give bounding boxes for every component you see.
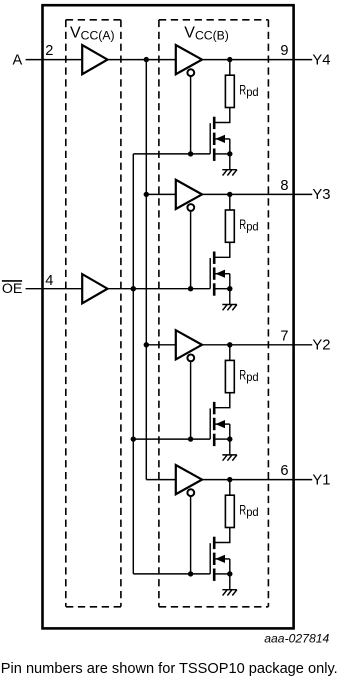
wire Y3 bubble to gate net bbox=[190, 211, 192, 289]
wire Y3 output bbox=[202, 193, 312, 195]
outer box bbox=[43, 5, 294, 628]
wire OE rail to Q7 gate bbox=[133, 573, 210, 575]
wire U1 out to Y4 buffer bbox=[108, 59, 176, 61]
svg-text:2: 2 bbox=[45, 43, 53, 59]
svg-text:aaa-027814: aaa-027814 bbox=[264, 632, 329, 646]
svg-text:7: 7 bbox=[280, 328, 288, 344]
wire Q1 source to ground bbox=[229, 154, 231, 170]
wire Rpd to Q7 drain bbox=[214, 528, 230, 543]
transistor Q5 (Y2 pull-down nmos) bbox=[210, 402, 230, 446]
wire OE input bbox=[26, 288, 83, 290]
wire OE out / Q3 gate net bbox=[108, 288, 211, 290]
svg-text:8: 8 bbox=[280, 178, 288, 194]
wire A vertical rail bbox=[145, 60, 147, 480]
node OE rail junction bbox=[131, 286, 136, 291]
transistor Q3 (Y3 pull-down nmos) bbox=[210, 252, 230, 296]
buffer U5 enable bubble bbox=[187, 355, 194, 362]
svg-text:Y3: Y3 bbox=[312, 187, 330, 203]
wire Y2 output bbox=[202, 344, 312, 346]
wire Q5 source to ground bbox=[229, 439, 231, 455]
node A rail to Y2 input bbox=[144, 342, 149, 347]
node A rail to Y3 input bbox=[144, 192, 149, 197]
wire A rail to Y1 buffer bbox=[146, 479, 176, 481]
svg-text:VCC(A): VCC(A) bbox=[70, 24, 115, 42]
svg-text:Y2: Y2 bbox=[312, 338, 330, 354]
node Q7 source junction bbox=[227, 571, 232, 576]
buffer U5 (Y2 driver) bbox=[176, 330, 202, 359]
transistor Q7 (Y1 pull-down nmos) bbox=[210, 537, 230, 581]
svg-text:pd: pd bbox=[246, 220, 259, 234]
ground (Y2 stage) bbox=[222, 455, 237, 461]
ground (Y3 stage) bbox=[222, 305, 237, 311]
Vcc(B) supply dashed box bbox=[159, 20, 269, 607]
svg-text:pd: pd bbox=[246, 85, 259, 99]
ground (Y4 stage) bbox=[222, 170, 237, 176]
wire Q3 source to ground bbox=[229, 289, 231, 305]
wire Y2 node to Rpd bbox=[229, 345, 231, 361]
node Y1 output junction bbox=[227, 477, 232, 482]
resistor Rpd (Y4 pull-down) bbox=[225, 75, 234, 107]
buffer U6 (Y1 driver) bbox=[176, 465, 202, 494]
node A fanout junction bbox=[144, 57, 149, 62]
wire Y4 output bbox=[202, 59, 312, 61]
svg-text:Y4: Y4 bbox=[312, 52, 330, 68]
svg-text:4: 4 bbox=[45, 273, 53, 289]
svg-text:OE: OE bbox=[2, 281, 23, 297]
wire Y4 node to Rpd bbox=[229, 60, 231, 76]
svg-text:VCC(B): VCC(B) bbox=[184, 24, 229, 42]
svg-text:A: A bbox=[13, 53, 23, 69]
svg-text:pd: pd bbox=[246, 505, 259, 519]
wire Y3 node to Rpd bbox=[229, 194, 231, 210]
svg-text:9: 9 bbox=[280, 43, 288, 59]
svg-text:Y1: Y1 bbox=[312, 472, 330, 488]
buffer U6 enable bubble bbox=[187, 489, 194, 496]
wire Y1 node to Rpd bbox=[229, 480, 231, 496]
svg-text:Pin numbers are shown for TSSO: Pin numbers are shown for TSSOP10 packag… bbox=[1, 661, 338, 677]
wire Y1 bubble to gate net bbox=[190, 496, 192, 574]
wire OE rail to Q1 gate bbox=[133, 153, 210, 155]
node Y2 output junction bbox=[227, 342, 232, 347]
buffer U4 (Y3 driver) bbox=[176, 180, 202, 209]
node Y1 bubble-gate junction bbox=[188, 571, 193, 576]
buffer U4 enable bubble bbox=[187, 204, 194, 211]
node Y3 output junction bbox=[227, 192, 232, 197]
node OE rail to Q5 gate bbox=[131, 436, 136, 441]
wire OE rail to Q5 gate bbox=[133, 438, 210, 440]
wire Rpd to Q5 drain bbox=[214, 393, 230, 408]
wire Rpd to Q1 drain bbox=[214, 108, 230, 123]
node Q1 source junction bbox=[227, 151, 232, 156]
buffer U3 (Y4 driver) bbox=[176, 45, 202, 74]
resistor Rpd (Y3 pull-down) bbox=[225, 210, 234, 242]
svg-text:6: 6 bbox=[280, 463, 288, 479]
Vcc(A) supply dashed box bbox=[66, 20, 121, 607]
node Y4 bubble-gate junction bbox=[188, 151, 193, 156]
wire Y4 bubble to gate net bbox=[190, 76, 192, 153]
wire A rail to Y2 buffer bbox=[146, 344, 176, 346]
wire Rpd to Q3 drain bbox=[214, 242, 230, 257]
node Q3 source junction bbox=[227, 286, 232, 291]
node Y3 bubble-gate junction bbox=[188, 286, 193, 291]
buffer U1 (A input) bbox=[82, 45, 107, 74]
wire Y1 output bbox=[202, 479, 312, 481]
wire OE vertical rail bbox=[132, 154, 134, 574]
ground (Y1 stage) bbox=[222, 590, 237, 596]
buffer U2 (OE input) bbox=[82, 274, 107, 303]
node Y4 output junction bbox=[227, 57, 232, 62]
node Q5 source junction bbox=[227, 436, 232, 441]
wire Q7 source to ground bbox=[229, 574, 231, 590]
svg-text:pd: pd bbox=[246, 370, 259, 384]
transistor Q1 (Y4 pull-down nmos) bbox=[210, 117, 230, 161]
resistor Rpd (Y2 pull-down) bbox=[225, 360, 234, 392]
buffer U3 enable bubble bbox=[187, 69, 194, 76]
wire Y2 bubble to gate net bbox=[190, 362, 192, 440]
resistor Rpd (Y1 pull-down) bbox=[225, 495, 234, 527]
node Y2 bubble-gate junction bbox=[188, 436, 193, 441]
wire A input bbox=[26, 59, 83, 61]
wire A rail to Y3 buffer bbox=[146, 193, 176, 195]
